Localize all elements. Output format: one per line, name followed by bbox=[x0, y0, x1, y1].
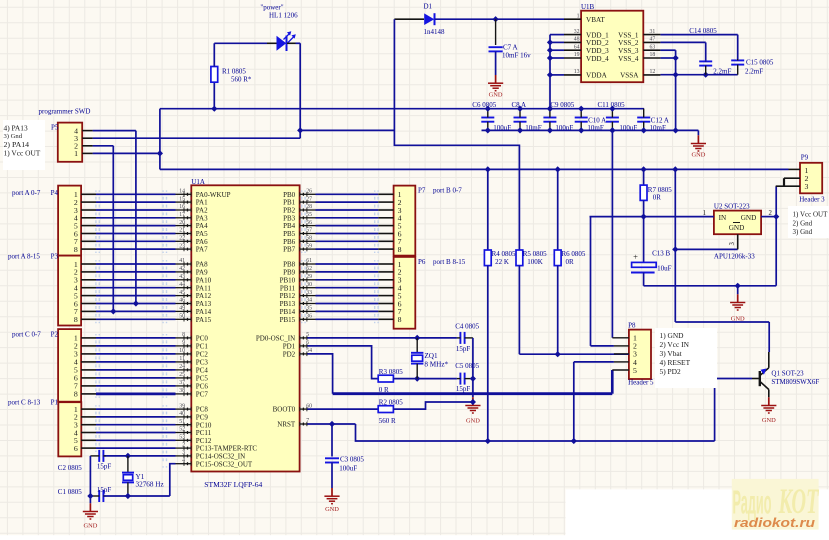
svg-text:R1 0805: R1 0805 bbox=[222, 68, 246, 76]
svg-text:PC14-OSC32_IN: PC14-OSC32_IN bbox=[196, 453, 245, 461]
svg-text:HL1 1206: HL1 1206 bbox=[269, 12, 298, 20]
svg-text:PC6: PC6 bbox=[196, 383, 209, 391]
svg-text:1) Vcc OUT: 1) Vcc OUT bbox=[4, 149, 41, 158]
svg-text:560 R*: 560 R* bbox=[231, 76, 252, 84]
svg-text:P3: P3 bbox=[51, 253, 59, 261]
svg-text:0R: 0R bbox=[653, 194, 662, 202]
svg-text:Header 3: Header 3 bbox=[799, 196, 825, 204]
svg-text:BOOT0: BOOT0 bbox=[273, 406, 296, 414]
svg-text:PD2: PD2 bbox=[283, 351, 296, 359]
svg-text:PA9: PA9 bbox=[196, 269, 208, 277]
svg-text:C11 0805: C11 0805 bbox=[598, 101, 626, 109]
svg-text:100uF: 100uF bbox=[619, 124, 637, 132]
svg-text:8: 8 bbox=[74, 315, 78, 324]
svg-text:4) PA13: 4) PA13 bbox=[4, 124, 28, 133]
svg-text:8: 8 bbox=[398, 315, 402, 324]
svg-text:43: 43 bbox=[179, 274, 185, 280]
svg-text:37: 37 bbox=[179, 380, 185, 386]
svg-text:+: + bbox=[633, 252, 638, 262]
svg-text:VSS_3: VSS_3 bbox=[618, 47, 639, 55]
svg-text:15pF: 15pF bbox=[456, 345, 471, 353]
svg-text:Радио: Радио bbox=[733, 484, 772, 521]
svg-text:PC2: PC2 bbox=[196, 351, 209, 359]
svg-text:41: 41 bbox=[179, 258, 185, 264]
svg-text:55: 55 bbox=[306, 212, 312, 218]
svg-text:VSSA: VSSA bbox=[620, 72, 639, 80]
svg-text:R2 0805: R2 0805 bbox=[379, 399, 403, 407]
svg-text:27: 27 bbox=[306, 196, 312, 202]
svg-text:23: 23 bbox=[179, 243, 185, 249]
svg-text:C6 0805: C6 0805 bbox=[472, 101, 496, 109]
svg-text:3: 3 bbox=[729, 242, 736, 246]
svg-text:port B 8-15: port B 8-15 bbox=[433, 258, 466, 266]
svg-text:31: 31 bbox=[650, 29, 656, 35]
svg-text:U1A: U1A bbox=[191, 178, 205, 186]
svg-text:62: 62 bbox=[306, 266, 312, 272]
svg-text:PA10: PA10 bbox=[196, 276, 212, 284]
svg-text:C9 0805: C9 0805 bbox=[550, 101, 574, 109]
svg-text:PC4: PC4 bbox=[196, 367, 209, 375]
svg-text:C7 A: C7 A bbox=[503, 44, 518, 52]
svg-text:16: 16 bbox=[179, 204, 185, 210]
svg-text:GND: GND bbox=[325, 506, 339, 513]
svg-text:8: 8 bbox=[74, 390, 78, 399]
svg-text:33: 33 bbox=[306, 290, 312, 296]
svg-text:47: 47 bbox=[650, 37, 656, 43]
svg-text:4) RESET: 4) RESET bbox=[660, 358, 691, 367]
svg-text:4: 4 bbox=[182, 458, 185, 464]
svg-text:10mF 16v: 10mF 16v bbox=[502, 52, 531, 60]
svg-text:8 MHz*: 8 MHz* bbox=[424, 360, 448, 368]
svg-text:P2: P2 bbox=[51, 331, 59, 339]
svg-text:PA8: PA8 bbox=[196, 261, 208, 269]
svg-text:PD1: PD1 bbox=[283, 343, 296, 351]
svg-text:38: 38 bbox=[179, 388, 185, 394]
svg-text:GND: GND bbox=[741, 214, 757, 222]
svg-text:2: 2 bbox=[182, 442, 185, 448]
svg-text:C8 A: C8 A bbox=[512, 101, 527, 109]
svg-text:100uF: 100uF bbox=[493, 124, 511, 132]
svg-text:1) Vcc OUT: 1) Vcc OUT bbox=[793, 211, 829, 219]
svg-text:VSS_2: VSS_2 bbox=[618, 39, 639, 47]
svg-text:3) Gnd: 3) Gnd bbox=[4, 133, 23, 140]
svg-text:15pF: 15pF bbox=[97, 463, 112, 471]
svg-text:P8: P8 bbox=[628, 322, 636, 330]
svg-text:19: 19 bbox=[574, 52, 580, 58]
svg-text:PA7: PA7 bbox=[196, 246, 208, 254]
svg-text:VDD_2: VDD_2 bbox=[586, 39, 609, 47]
svg-text:2) Gnd: 2) Gnd bbox=[793, 220, 813, 228]
svg-text:PA0-WKUP: PA0-WKUP bbox=[196, 191, 231, 199]
svg-text:C12 A: C12 A bbox=[651, 116, 669, 124]
svg-text:C1 0805: C1 0805 bbox=[58, 488, 82, 496]
svg-text:21: 21 bbox=[179, 228, 185, 234]
svg-text:8: 8 bbox=[74, 245, 78, 254]
svg-text:PB13: PB13 bbox=[280, 300, 296, 308]
svg-text:22: 22 bbox=[179, 236, 185, 242]
svg-text:3) Vbat: 3) Vbat bbox=[660, 349, 683, 358]
svg-text:R5 0805: R5 0805 bbox=[523, 250, 547, 258]
svg-text:34: 34 bbox=[306, 298, 312, 304]
svg-text:GND: GND bbox=[83, 523, 97, 530]
svg-text:PB7: PB7 bbox=[283, 246, 296, 254]
svg-text:5: 5 bbox=[633, 366, 637, 375]
svg-text:29: 29 bbox=[306, 274, 312, 280]
svg-text:PB1: PB1 bbox=[283, 199, 296, 207]
svg-text:IN: IN bbox=[719, 214, 727, 222]
svg-text:2: 2 bbox=[769, 210, 773, 217]
svg-text:PA3: PA3 bbox=[196, 214, 208, 222]
svg-text:PA1: PA1 bbox=[196, 199, 208, 207]
svg-text:VSS_1: VSS_1 bbox=[618, 31, 639, 39]
svg-text:32: 32 bbox=[574, 29, 580, 35]
svg-text:PB11: PB11 bbox=[280, 284, 296, 292]
svg-text:APU1206k-33: APU1206k-33 bbox=[714, 252, 755, 260]
svg-text:VDD_4: VDD_4 bbox=[586, 55, 609, 63]
svg-text:VDDA: VDDA bbox=[586, 72, 608, 80]
svg-text:1) GND: 1) GND bbox=[660, 331, 685, 340]
svg-text:PA14: PA14 bbox=[196, 308, 212, 316]
svg-text:R4 0805: R4 0805 bbox=[492, 250, 516, 258]
svg-text:C14 0805: C14 0805 bbox=[689, 27, 717, 35]
svg-text:"power": "power" bbox=[260, 4, 283, 12]
svg-text:PD0-OSC_IN: PD0-OSC_IN bbox=[256, 335, 295, 343]
svg-text:STM809SWX6F: STM809SWX6F bbox=[771, 378, 819, 386]
svg-text:PB2: PB2 bbox=[283, 207, 296, 215]
svg-text:42: 42 bbox=[179, 266, 185, 272]
svg-text:PB6: PB6 bbox=[283, 238, 296, 246]
svg-text:6: 6 bbox=[74, 444, 78, 453]
svg-text:PC15-OSC32_OUT: PC15-OSC32_OUT bbox=[196, 460, 253, 468]
svg-text:61: 61 bbox=[306, 258, 312, 264]
svg-text:46: 46 bbox=[179, 298, 185, 304]
svg-text:48: 48 bbox=[574, 37, 580, 43]
svg-text:24: 24 bbox=[179, 364, 185, 370]
svg-text:P4: P4 bbox=[51, 189, 59, 197]
svg-text:51: 51 bbox=[179, 419, 185, 425]
svg-text:11: 11 bbox=[179, 356, 185, 362]
svg-text:C4 0805: C4 0805 bbox=[455, 323, 479, 331]
svg-text:0R: 0R bbox=[566, 258, 575, 266]
svg-text:560 R: 560 R bbox=[379, 417, 396, 425]
svg-text:8: 8 bbox=[398, 245, 402, 254]
svg-text:10: 10 bbox=[179, 348, 185, 354]
svg-text:53: 53 bbox=[179, 435, 185, 441]
svg-text:100uF: 100uF bbox=[339, 464, 357, 472]
svg-text:PA12: PA12 bbox=[196, 292, 212, 300]
svg-text:100nF: 100nF bbox=[555, 124, 573, 132]
svg-text:PC7: PC7 bbox=[196, 391, 209, 399]
svg-text:Header 5: Header 5 bbox=[628, 378, 654, 386]
svg-text:PB9: PB9 bbox=[283, 269, 296, 277]
svg-text:PB10: PB10 bbox=[280, 276, 296, 284]
svg-text:PB15: PB15 bbox=[280, 316, 296, 324]
svg-text:C2 0805: C2 0805 bbox=[58, 464, 82, 472]
svg-text:GND: GND bbox=[762, 417, 776, 424]
svg-text:54: 54 bbox=[306, 348, 312, 354]
svg-text:14: 14 bbox=[179, 189, 185, 195]
svg-text:PC9: PC9 bbox=[196, 414, 209, 422]
svg-text:C10 A: C10 A bbox=[588, 116, 606, 124]
svg-text:20: 20 bbox=[179, 220, 185, 226]
svg-text:programmer SWD: programmer SWD bbox=[39, 108, 91, 116]
svg-text:49: 49 bbox=[179, 306, 185, 312]
svg-text:PC0: PC0 bbox=[196, 335, 209, 343]
svg-text:2) Vcc IN: 2) Vcc IN bbox=[660, 340, 690, 349]
svg-text:port C 0-7: port C 0-7 bbox=[12, 331, 41, 339]
svg-text:PA15: PA15 bbox=[196, 316, 212, 324]
svg-text:VDD_1: VDD_1 bbox=[586, 31, 609, 39]
svg-text:7: 7 bbox=[306, 418, 309, 424]
svg-text:PA13: PA13 bbox=[196, 300, 212, 308]
svg-text:КОТ: КОТ bbox=[778, 481, 820, 521]
svg-text:2.2mF: 2.2mF bbox=[745, 68, 763, 76]
svg-text:PC13-TAMPER-RTC: PC13-TAMPER-RTC bbox=[196, 445, 258, 453]
svg-text:22 K: 22 K bbox=[495, 258, 509, 266]
svg-text:P7: P7 bbox=[418, 187, 426, 195]
svg-text:P9: P9 bbox=[801, 153, 809, 161]
svg-text:8: 8 bbox=[182, 332, 185, 338]
svg-text:56: 56 bbox=[306, 220, 312, 226]
svg-text:PC8: PC8 bbox=[196, 406, 209, 414]
svg-text:10mF: 10mF bbox=[650, 124, 666, 132]
svg-text:radiokot.ru: radiokot.ru bbox=[734, 516, 815, 530]
svg-text:C13 B: C13 B bbox=[652, 250, 670, 258]
svg-text:PB0: PB0 bbox=[283, 191, 296, 199]
svg-text:36: 36 bbox=[306, 314, 312, 320]
svg-text:35: 35 bbox=[306, 306, 312, 312]
svg-text:5: 5 bbox=[306, 332, 309, 338]
svg-text:PA11: PA11 bbox=[196, 284, 212, 292]
svg-text:Q1 SOT-23: Q1 SOT-23 bbox=[771, 369, 804, 377]
svg-text:P1: P1 bbox=[51, 399, 59, 407]
svg-text:PA2: PA2 bbox=[196, 207, 208, 215]
svg-text:PB8: PB8 bbox=[283, 261, 296, 269]
svg-text:1n4148: 1n4148 bbox=[424, 28, 446, 36]
svg-text:58: 58 bbox=[306, 236, 312, 242]
svg-text:PB14: PB14 bbox=[280, 308, 296, 316]
svg-text:PB4: PB4 bbox=[283, 222, 296, 230]
svg-text:3: 3 bbox=[182, 450, 185, 456]
svg-text:32768 Hz: 32768 Hz bbox=[136, 480, 164, 488]
svg-text:port A 0-7: port A 0-7 bbox=[12, 189, 41, 197]
svg-text:6: 6 bbox=[306, 340, 309, 346]
svg-text:2.2mF: 2.2mF bbox=[713, 68, 731, 76]
svg-text:GND: GND bbox=[691, 152, 705, 159]
svg-text:15: 15 bbox=[179, 196, 185, 202]
svg-text:57: 57 bbox=[306, 228, 312, 234]
svg-text:39: 39 bbox=[179, 403, 185, 409]
svg-text:ZQ1: ZQ1 bbox=[424, 352, 438, 360]
svg-text:PC1: PC1 bbox=[196, 343, 209, 351]
svg-text:52: 52 bbox=[179, 427, 185, 433]
svg-text:1: 1 bbox=[577, 13, 580, 19]
svg-text:18: 18 bbox=[650, 52, 656, 58]
svg-text:PC11: PC11 bbox=[196, 429, 212, 437]
svg-text:GND: GND bbox=[466, 418, 480, 425]
svg-text:R6 0805: R6 0805 bbox=[562, 250, 586, 258]
svg-text:26: 26 bbox=[306, 189, 312, 195]
svg-text:1: 1 bbox=[74, 149, 78, 158]
svg-text:U2 SOT-223: U2 SOT-223 bbox=[714, 203, 750, 211]
svg-text:5) PD2: 5) PD2 bbox=[660, 367, 681, 376]
svg-text:port C 8-13: port C 8-13 bbox=[8, 399, 41, 407]
svg-text:0 R: 0 R bbox=[379, 386, 389, 394]
svg-text:15pF: 15pF bbox=[97, 486, 112, 494]
svg-text:PA4: PA4 bbox=[196, 222, 208, 230]
svg-text:PC5: PC5 bbox=[196, 375, 209, 383]
svg-text:10mF: 10mF bbox=[525, 124, 541, 132]
svg-text:45: 45 bbox=[179, 290, 185, 296]
svg-text:port A 8-15: port A 8-15 bbox=[8, 253, 40, 261]
svg-text:C15 0805: C15 0805 bbox=[746, 59, 774, 67]
svg-text:PB3: PB3 bbox=[283, 214, 296, 222]
svg-text:C5 0805: C5 0805 bbox=[455, 362, 479, 370]
svg-text:60: 60 bbox=[306, 403, 312, 409]
svg-text:40: 40 bbox=[179, 411, 185, 417]
svg-text:17: 17 bbox=[179, 212, 185, 218]
svg-text:GND: GND bbox=[729, 224, 745, 232]
svg-text:PB12: PB12 bbox=[280, 292, 296, 300]
svg-text:STM32F LQFP-64: STM32F LQFP-64 bbox=[204, 480, 262, 489]
svg-text:64: 64 bbox=[574, 44, 580, 50]
svg-text:port B 0-7: port B 0-7 bbox=[433, 187, 462, 195]
svg-text:P5: P5 bbox=[51, 124, 59, 132]
svg-text:PA6: PA6 bbox=[196, 238, 208, 246]
svg-text:3: 3 bbox=[805, 182, 809, 191]
svg-text:1: 1 bbox=[703, 210, 706, 217]
svg-text:U1B: U1B bbox=[581, 3, 595, 11]
svg-text:3) Gnd: 3) Gnd bbox=[793, 228, 813, 236]
svg-text:PA5: PA5 bbox=[196, 230, 208, 238]
svg-text:44: 44 bbox=[179, 282, 185, 288]
svg-text:PC12: PC12 bbox=[196, 437, 212, 445]
svg-text:PC3: PC3 bbox=[196, 359, 209, 367]
svg-text:R3 0805: R3 0805 bbox=[379, 368, 403, 376]
svg-text:30: 30 bbox=[306, 282, 312, 288]
svg-text:10mF: 10mF bbox=[587, 124, 603, 132]
svg-text:PC10: PC10 bbox=[196, 421, 212, 429]
svg-text:VSS_4: VSS_4 bbox=[618, 55, 639, 63]
svg-text:12: 12 bbox=[650, 69, 656, 75]
svg-text:P6: P6 bbox=[418, 258, 426, 266]
svg-text:PB5: PB5 bbox=[283, 230, 296, 238]
svg-text:25: 25 bbox=[179, 372, 185, 378]
svg-text:63: 63 bbox=[650, 44, 656, 50]
svg-text:28: 28 bbox=[306, 204, 312, 210]
svg-text:15pF: 15pF bbox=[456, 385, 471, 393]
svg-text:NRST: NRST bbox=[277, 421, 296, 429]
svg-text:VDD_3: VDD_3 bbox=[586, 47, 609, 55]
svg-text:13: 13 bbox=[574, 69, 580, 75]
svg-text:C3 0805: C3 0805 bbox=[340, 455, 364, 463]
svg-text:GND: GND bbox=[489, 92, 503, 99]
svg-text:10uF: 10uF bbox=[657, 264, 672, 272]
svg-text:100K: 100K bbox=[527, 258, 543, 266]
svg-text:9: 9 bbox=[182, 340, 185, 346]
svg-text:D1: D1 bbox=[424, 3, 433, 11]
svg-text:VBAT: VBAT bbox=[586, 16, 605, 24]
svg-text:50: 50 bbox=[179, 314, 185, 320]
svg-text:59: 59 bbox=[306, 243, 312, 249]
